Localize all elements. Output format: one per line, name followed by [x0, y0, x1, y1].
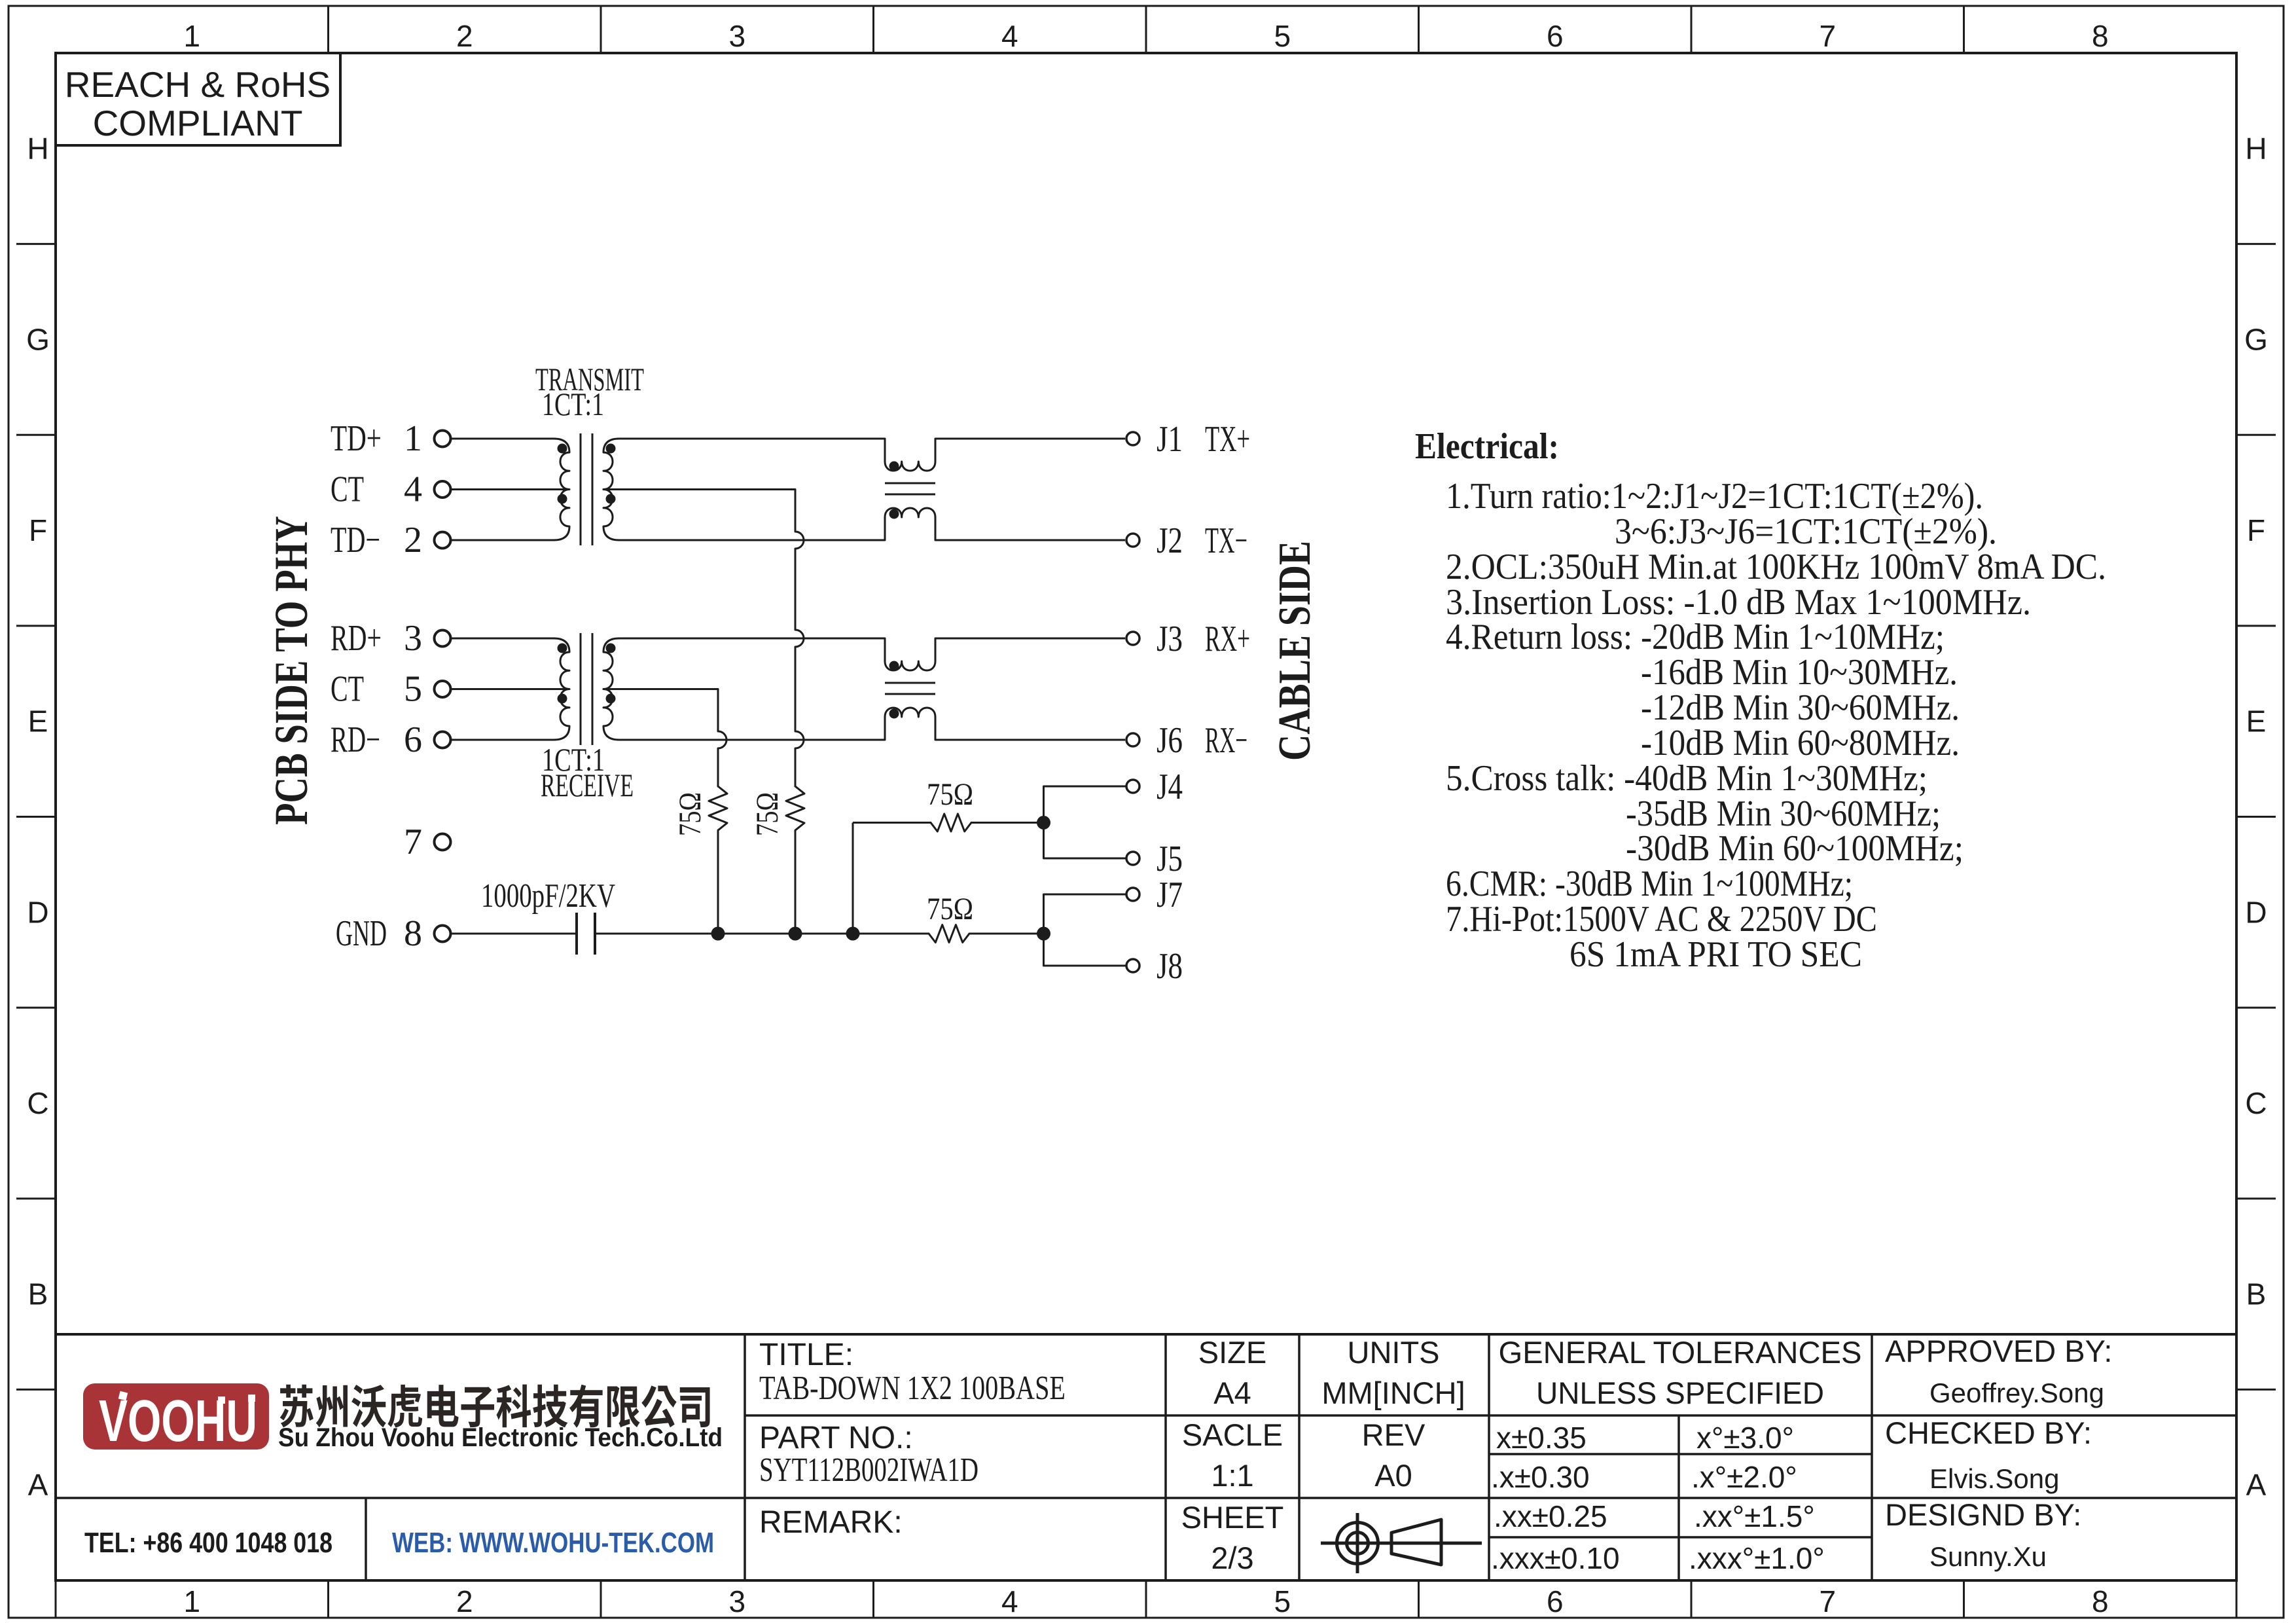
- svg-text:H: H: [27, 132, 48, 166]
- wire pin5 to T2 center tap: [452, 688, 569, 690]
- wire pin6 to T2: [452, 739, 554, 741]
- svg-text:75Ω: 75Ω: [927, 892, 973, 926]
- svg-text:8: 8: [404, 913, 422, 954]
- svg-text:Su Zhou Voohu Electronic Tech.: Su Zhou Voohu Electronic Tech.Co.Ltd: [278, 1423, 723, 1452]
- wire pin2 to T1: [452, 539, 554, 541]
- wire pin8 GND to C1: [452, 933, 577, 935]
- label 1CT:1 RECEIVE: [541, 741, 634, 803]
- svg-text:G: G: [2244, 322, 2268, 356]
- common-mode choke L2 (RX): [885, 638, 935, 740]
- svg-text:.x°±2.0°: .x°±2.0°: [1691, 1460, 1797, 1494]
- pin 7 (nc): [404, 822, 451, 862]
- svg-text:PART NO.:: PART NO.:: [759, 1421, 913, 1455]
- svg-text:4: 4: [1001, 1584, 1018, 1618]
- svg-text:.xx±0.25: .xx±0.25: [1494, 1499, 1607, 1533]
- wire pin1 to T1: [452, 438, 554, 440]
- svg-text:TAB-DOWN 1X2 100BASE: TAB-DOWN 1X2 100BASE: [759, 1370, 1066, 1407]
- svg-text:2: 2: [404, 520, 422, 560]
- svg-text:x°±3.0°: x°±3.0°: [1696, 1421, 1794, 1455]
- title block: [56, 1334, 2236, 1580]
- svg-text:.xxx°±1.0°: .xxx°±1.0°: [1689, 1541, 1825, 1575]
- svg-text:RECEIVE: RECEIVE: [541, 767, 634, 803]
- pin 1 TD+: [331, 418, 451, 459]
- junction dot: [789, 927, 802, 941]
- svg-text:Electrical:: Electrical:: [1415, 426, 1559, 467]
- pin 6 RD-: [331, 720, 451, 760]
- svg-text:UNLESS SPECIFIED: UNLESS SPECIFIED: [1536, 1376, 1824, 1410]
- svg-text:C: C: [27, 1086, 48, 1120]
- resistor R2 75 ohm (vertical): [786, 786, 804, 830]
- svg-text:A0: A0: [1374, 1458, 1412, 1493]
- svg-text:REACH & RoHS: REACH & RoHS: [65, 64, 331, 105]
- svg-text:x±0.35: x±0.35: [1496, 1421, 1587, 1455]
- resistor R4 75 ohm (horizontal, on GND bus): [929, 925, 969, 943]
- svg-text:6.CMR: -30dB Min 1~100MHz;: 6.CMR: -30dB Min 1~100MHz;: [1446, 864, 1853, 904]
- svg-text:REV: REV: [1362, 1417, 1426, 1452]
- svg-text:RX+: RX+: [1205, 619, 1250, 659]
- wire T2 top to L2: [619, 638, 885, 640]
- svg-text:4: 4: [1001, 19, 1018, 53]
- capacitor C1 1000pF/2KV: [481, 877, 615, 955]
- wire R4 to J7/J8 bracket: [970, 933, 1044, 935]
- wire R1 to GND bus: [717, 830, 719, 934]
- approvals: [1885, 1334, 2112, 1572]
- svg-text:.x±0.30: .x±0.30: [1491, 1460, 1590, 1494]
- svg-text:TD−: TD−: [331, 520, 380, 560]
- pin J5: [1126, 839, 1183, 879]
- wire L1 to J1: [935, 438, 1125, 440]
- svg-text:8: 8: [2092, 19, 2109, 53]
- pin 2 TD-: [331, 520, 451, 560]
- svg-text:RD−: RD−: [331, 720, 380, 760]
- svg-text:MM[INCH]: MM[INCH]: [1321, 1376, 1465, 1410]
- svg-text:E: E: [2246, 704, 2267, 739]
- svg-text:J6: J6: [1157, 720, 1183, 761]
- svg-text:GND: GND: [336, 913, 387, 954]
- svg-text:Sunny.Xu: Sunny.Xu: [1929, 1541, 2047, 1572]
- svg-text:D: D: [27, 895, 48, 929]
- svg-text:SHEET: SHEET: [1181, 1500, 1284, 1535]
- wire L2 to J3: [935, 638, 1125, 640]
- svg-text:B: B: [2246, 1277, 2267, 1311]
- wire T1 secondary center tap down to R2 (hops J2,J3,J6): [603, 490, 804, 787]
- svg-text:3: 3: [728, 1584, 745, 1618]
- wire C1 to GND bus junctions: [595, 933, 929, 935]
- svg-text:4.Return loss: -20dB Min 1~10M: 4.Return loss: -20dB Min 1~10MHz;: [1446, 617, 1945, 657]
- svg-text:G: G: [26, 322, 50, 356]
- wire bracket J4/J5: [1044, 786, 1126, 858]
- junction dot: [846, 927, 860, 941]
- svg-text:5.Cross talk: -40dB Min 1~30MH: 5.Cross talk: -40dB Min 1~30MHz;: [1446, 758, 1928, 799]
- wire V3 up to R3: [852, 823, 854, 934]
- svg-text:F: F: [2247, 513, 2265, 547]
- svg-text:J1: J1: [1157, 419, 1183, 460]
- svg-text:TX−: TX−: [1205, 520, 1247, 561]
- svg-text:3: 3: [404, 618, 422, 659]
- svg-text:3: 3: [728, 19, 745, 53]
- wire T2 secondary center tap down to R1 (hop J6): [603, 689, 726, 787]
- svg-text:8: 8: [2092, 1584, 2109, 1618]
- svg-text:1: 1: [183, 1584, 200, 1618]
- svg-text:Elvis.Song: Elvis.Song: [1929, 1463, 2059, 1494]
- svg-text:1CT:1: 1CT:1: [542, 386, 604, 422]
- pin J1 TX+: [1126, 419, 1250, 460]
- resistor R1 75 ohm (vertical): [709, 786, 727, 830]
- svg-text:2/3: 2/3: [1211, 1541, 1253, 1575]
- pin J4: [1126, 767, 1183, 807]
- svg-text:2.OCL:350uH Min.at 100KHz 100m: 2.OCL:350uH Min.at 100KHz 100mV 8mA DC.: [1446, 547, 2106, 587]
- svg-text:5: 5: [1274, 1584, 1291, 1618]
- transformer T1 TRANSMIT 1CT:1: [554, 433, 619, 545]
- pin J6 RX-: [1126, 720, 1247, 761]
- svg-text:B: B: [28, 1277, 48, 1311]
- svg-text:RD+: RD+: [331, 618, 382, 659]
- svg-text:7: 7: [1819, 19, 1836, 53]
- svg-text:1: 1: [183, 19, 200, 53]
- wire R2 to GND bus: [795, 830, 797, 934]
- svg-text:SIZE: SIZE: [1198, 1335, 1266, 1370]
- svg-text:6: 6: [1547, 19, 1564, 53]
- svg-text:3~6:J3~J6=1CT:1CT(±2%).: 3~6:J3~J6=1CT:1CT(±2%).: [1615, 511, 1997, 552]
- svg-text:E: E: [28, 704, 48, 739]
- svg-text:CT: CT: [331, 469, 364, 510]
- svg-text:2: 2: [456, 1584, 473, 1618]
- tolerances: [1491, 1335, 1862, 1575]
- company logo VOOHU: [83, 1383, 269, 1454]
- svg-text:J3: J3: [1157, 619, 1183, 659]
- svg-text:4: 4: [404, 469, 422, 510]
- svg-text:1000pF/2KV: 1000pF/2KV: [481, 877, 615, 915]
- junction dot: [711, 927, 725, 941]
- size / scale / sheet fields: [1181, 1335, 1465, 1575]
- svg-text:TEL: +86 400 1048 018: TEL: +86 400 1048 018: [84, 1527, 332, 1559]
- svg-text:APPROVED BY:: APPROVED BY:: [1885, 1334, 2112, 1368]
- wire R3 to J4/J5 bracket: [971, 822, 1044, 824]
- svg-text:F: F: [29, 513, 47, 547]
- svg-text:CHECKED BY:: CHECKED BY:: [1885, 1415, 2092, 1450]
- svg-text:7: 7: [404, 822, 422, 862]
- svg-text:1:1: 1:1: [1211, 1458, 1253, 1493]
- svg-text:TITLE:: TITLE:: [759, 1338, 853, 1372]
- pin 8 GND: [336, 913, 451, 954]
- svg-text:SACLE: SACLE: [1182, 1417, 1283, 1452]
- wire pin4 to T1 center tap: [452, 488, 569, 490]
- svg-text:CT: CT: [331, 669, 364, 710]
- svg-text:H: H: [2245, 132, 2267, 166]
- pin J3 RX+: [1126, 619, 1250, 659]
- transformer T2 RECEIVE 1CT:1: [554, 633, 619, 745]
- svg-text:.xx°±1.5°: .xx°±1.5°: [1694, 1499, 1815, 1533]
- svg-text:UNITS: UNITS: [1348, 1335, 1440, 1370]
- svg-text:WEB: WWW.WOHU-TEK.COM: WEB: WWW.WOHU-TEK.COM: [392, 1527, 714, 1559]
- pin 5 CT: [331, 669, 451, 710]
- svg-text:Geoffrey.Song: Geoffrey.Song: [1929, 1377, 2104, 1408]
- junction dot: [1037, 927, 1050, 941]
- svg-text:1.Turn ratio:1~2:J1~J2=1CT:1CT: 1.Turn ratio:1~2:J1~J2=1CT:1CT(±2%).: [1446, 476, 1983, 517]
- svg-text:CABLE SIDE: CABLE SIDE: [1270, 541, 1320, 761]
- pin J7: [1126, 875, 1183, 915]
- svg-text:-16dB Min 10~30MHz.: -16dB Min 10~30MHz.: [1641, 652, 1958, 693]
- svg-text:2: 2: [456, 19, 473, 53]
- wire T1 top to L1: [619, 438, 885, 440]
- svg-text:75Ω: 75Ω: [673, 792, 708, 836]
- svg-text:7.Hi-Pot:1500V AC & 2250V DC: 7.Hi-Pot:1500V AC & 2250V DC: [1446, 899, 1877, 939]
- common-mode choke L1 (TX): [885, 439, 935, 540]
- svg-text:GENERAL TOLERANCES: GENERAL TOLERANCES: [1499, 1335, 1862, 1370]
- svg-text:J4: J4: [1157, 767, 1183, 807]
- REACH & RoHS compliance note box: [56, 53, 340, 145]
- label TRANSMIT 1CT:1: [535, 361, 644, 422]
- svg-text:-12dB Min 30~60MHz.: -12dB Min 30~60MHz.: [1641, 687, 1960, 728]
- wire to R3: [853, 822, 931, 824]
- pin 4 CT: [331, 469, 451, 510]
- svg-text:TX+: TX+: [1205, 419, 1250, 460]
- junction dot: [1037, 816, 1050, 830]
- electrical specifications note: [1415, 426, 2106, 975]
- svg-text:.xxx±0.10: .xxx±0.10: [1491, 1541, 1620, 1575]
- svg-text:COMPLIANT: COMPLIANT: [93, 103, 303, 143]
- svg-text:DESIGND BY:: DESIGND BY:: [1885, 1497, 2081, 1532]
- title fields: [759, 1338, 1066, 1540]
- wire T2 bottom to L2: [619, 739, 885, 741]
- wire L1 to J2: [935, 539, 1125, 541]
- svg-text:A: A: [2246, 1468, 2267, 1502]
- svg-text:75Ω: 75Ω: [750, 792, 785, 836]
- svg-text:5: 5: [404, 669, 422, 710]
- resistor R3 75 ohm (horizontal): [931, 814, 971, 831]
- svg-text:75Ω: 75Ω: [927, 777, 973, 812]
- svg-text:C: C: [2245, 1086, 2267, 1120]
- pin J2 TX-: [1126, 520, 1247, 561]
- pin J8: [1126, 946, 1183, 987]
- svg-text:6: 6: [404, 720, 422, 760]
- svg-text:RX−: RX−: [1205, 720, 1247, 761]
- svg-text:6: 6: [1547, 1584, 1564, 1618]
- svg-text:7: 7: [1819, 1584, 1836, 1618]
- svg-text:REMARK:: REMARK:: [759, 1505, 903, 1540]
- third-angle projection symbol: [1321, 1513, 1482, 1573]
- wire T1 bottom to L1: [619, 539, 885, 541]
- svg-text:SYT112B002IWA1D: SYT112B002IWA1D: [759, 1451, 978, 1489]
- svg-text:A: A: [28, 1468, 48, 1502]
- svg-text:6S 1mA PRI TO SEC: 6S 1mA PRI TO SEC: [1570, 934, 1862, 975]
- wire bracket J7/J8: [1044, 894, 1126, 966]
- wire pin3 to T2: [452, 638, 554, 640]
- svg-text:5: 5: [1274, 19, 1291, 53]
- svg-text:TD+: TD+: [331, 418, 382, 459]
- svg-text:1: 1: [404, 418, 422, 459]
- svg-text:-30dB Min 60~100MHz;: -30dB Min 60~100MHz;: [1626, 828, 1964, 869]
- svg-text:J2: J2: [1157, 520, 1183, 561]
- svg-text:D: D: [2245, 895, 2267, 929]
- svg-text:J7: J7: [1157, 875, 1183, 915]
- wire L2 to J6: [935, 739, 1125, 741]
- svg-text:-10dB Min 60~80MHz.: -10dB Min 60~80MHz.: [1641, 723, 1960, 763]
- svg-text:PCB SIDE TO PHY: PCB SIDE TO PHY: [265, 516, 317, 825]
- svg-text:A4: A4: [1213, 1376, 1251, 1410]
- svg-text:J8: J8: [1157, 946, 1183, 987]
- company name (Chinese): [280, 1385, 710, 1428]
- svg-text:J5: J5: [1157, 839, 1183, 879]
- pin 3 RD+: [331, 618, 451, 659]
